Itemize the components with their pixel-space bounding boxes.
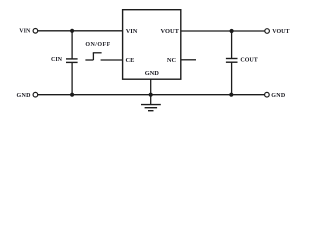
wire U1 GND pin to ground rail [150,79,152,104]
op-amp U1 regulator body [123,10,181,80]
node GND terminal left [33,92,38,97]
svg-text:GND: GND [17,93,32,99]
node VOUT terminal [265,29,270,34]
svg-text:VOUT: VOUT [161,28,180,35]
junction GND rail / COUT [229,93,233,97]
svg-text:VIN: VIN [19,28,31,34]
node GND terminal right [265,92,270,97]
wire to U1 CE pin [101,59,123,61]
svg-text:VOUT: VOUT [272,29,289,35]
wire NC pin stub [181,59,196,61]
wire U1 VOUT pin to VOUT terminal [181,30,265,32]
svg-text:NC: NC [167,57,177,64]
capacitor COUT [226,31,238,95]
junction GND rail / CIN [70,93,74,97]
capacitor CIN [66,31,78,95]
wire GND rail [38,94,265,96]
node VIN terminal [33,29,38,34]
svg-text:ON/OFF: ON/OFF [85,42,110,48]
pulse rising-edge symbol on CE wire [85,53,101,60]
svg-text:VIN: VIN [126,28,138,35]
wire VIN terminal to U1 VIN pin [38,30,123,32]
ground [141,105,161,111]
junction VIN rail / CIN [70,29,74,33]
svg-text:COUT: COUT [240,58,257,64]
svg-text:CIN: CIN [51,57,63,63]
junction GND rail / U1 ground lead [149,93,153,97]
svg-text:GND: GND [145,70,160,77]
junction VOUT rail / COUT [230,29,234,33]
svg-text:CE: CE [126,57,135,64]
svg-text:GND: GND [271,93,286,99]
